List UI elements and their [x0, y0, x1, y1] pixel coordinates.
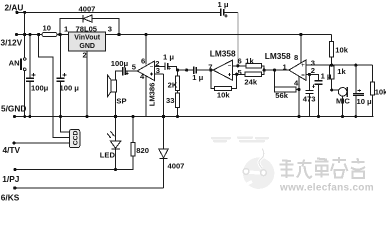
svg-text:100μ: 100μ [31, 83, 49, 92]
svg-text:24k: 24k [244, 78, 257, 87]
svg-text:www.elecfans.com: www.elecfans.com [279, 183, 374, 194]
svg-text:820: 820 [136, 146, 149, 155]
svg-text:4: 4 [294, 78, 299, 87]
svg-text:4007: 4007 [79, 4, 96, 13]
svg-text:GND: GND [79, 43, 95, 50]
svg-text:4007: 4007 [168, 161, 185, 170]
svg-text:1/PJ: 1/PJ [2, 174, 19, 184]
svg-text:8: 8 [294, 53, 298, 62]
svg-text:5: 5 [238, 68, 243, 77]
svg-text:LM386: LM386 [148, 83, 157, 107]
svg-text:56k: 56k [275, 91, 288, 100]
svg-text:LM358: LM358 [210, 49, 236, 59]
svg-text:AN: AN [9, 59, 20, 68]
svg-text:6: 6 [141, 56, 145, 65]
svg-text:5: 5 [132, 63, 137, 72]
svg-text:1 μ: 1 μ [192, 73, 203, 82]
svg-text:MIC: MIC [336, 97, 350, 106]
svg-text:2: 2 [311, 66, 315, 75]
svg-text:7: 7 [208, 63, 212, 72]
svg-text:100μ: 100μ [111, 59, 129, 68]
svg-text:4/TV: 4/TV [3, 145, 21, 155]
svg-text:100 μ: 100 μ [60, 83, 80, 92]
svg-text:2: 2 [83, 50, 87, 59]
svg-text:1k: 1k [245, 56, 254, 65]
svg-text:6: 6 [238, 56, 242, 65]
svg-text:10: 10 [43, 23, 51, 32]
svg-text:3: 3 [156, 66, 160, 75]
svg-text:2K: 2K [168, 81, 178, 90]
svg-text:1 μ: 1 μ [321, 71, 332, 80]
svg-text:1 μ: 1 μ [218, 0, 229, 9]
svg-text:473: 473 [303, 94, 316, 103]
svg-text:3: 3 [108, 25, 112, 34]
svg-text:CCD: CCD [73, 130, 80, 145]
svg-text:2/AU: 2/AU [5, 3, 24, 13]
svg-text:78L05: 78L05 [76, 25, 98, 34]
svg-text:10k: 10k [217, 91, 230, 100]
svg-text:10k: 10k [375, 87, 386, 96]
svg-text:10 μ: 10 μ [357, 97, 373, 106]
svg-text:1k: 1k [337, 67, 346, 76]
svg-text:VinVout: VinVout [74, 34, 100, 41]
svg-text:5/GND: 5/GND [1, 104, 26, 114]
svg-text:10k: 10k [335, 46, 348, 55]
svg-text:1 μ: 1 μ [163, 53, 174, 62]
svg-text:LED: LED [100, 150, 116, 159]
svg-text:LM358: LM358 [265, 51, 291, 61]
svg-text:3/12V: 3/12V [1, 38, 23, 48]
svg-text:33: 33 [166, 96, 174, 105]
svg-text:6/KS: 6/KS [1, 193, 20, 202]
svg-text:SP: SP [116, 96, 126, 105]
